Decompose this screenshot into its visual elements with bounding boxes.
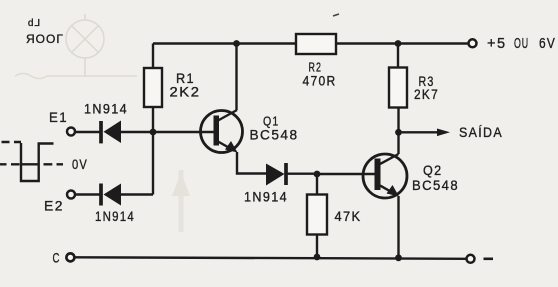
bleed-through text ghost 100R: [26, 18, 64, 46]
wire: SAIDA arrow: [399, 129, 451, 137]
wire: R3 top lead: [397, 44, 399, 68]
wire: D1 to node A: [118, 131, 153, 133]
svg-text:1N914: 1N914: [95, 208, 135, 224]
wire: E2 to D2: [75, 193, 101, 195]
svg-text:6V: 6V: [539, 35, 556, 52]
wire: Q2 emitter: [397, 196, 399, 258]
resistor R1: [144, 68, 162, 107]
wire: R1 top lead: [152, 44, 154, 69]
svg-text:47K: 47K: [335, 208, 362, 224]
resistor R3: [389, 68, 407, 108]
svg-text:E1: E1: [49, 109, 68, 125]
svg-text:SAÍDA: SAÍDA: [459, 124, 503, 140]
waveform input pulse: [0, 142, 63, 181]
junction dot: rail / Q1 collector: [233, 40, 240, 47]
bleed-through wire ghost: [15, 74, 137, 79]
svg-text:1N914: 1N914: [244, 188, 288, 204]
terminal E2: [67, 191, 75, 199]
diode D3 1N914: [266, 163, 286, 186]
wire: 47K bottom lead: [316, 235, 318, 258]
svg-text:470R: 470R: [303, 73, 337, 89]
wire: E1 to D1: [75, 131, 101, 133]
terminal +5V: [469, 39, 477, 47]
node A junction dot: [150, 129, 157, 136]
resistor 47K: [307, 195, 327, 235]
wire: E2 riser to node A: [152, 131, 154, 195]
svg-text:Lb: Lb: [27, 18, 40, 29]
svg-text:E2: E2: [44, 198, 64, 214]
wire: R1 bottom lead: [152, 107, 154, 132]
diode D1 1N914: [101, 121, 121, 144]
svg-text:Q2: Q2: [423, 162, 443, 178]
svg-text:C: C: [53, 250, 61, 266]
wire: top supply rail: [153, 42, 469, 44]
svg-text:ЯООΓ: ЯООΓ: [26, 32, 64, 46]
terminal minus: [467, 255, 475, 263]
junction dot: Q2 emitter / bottom rail: [395, 254, 402, 261]
transistor Q2 BC548: [363, 154, 407, 198]
transistor Q1 BC548: [201, 110, 243, 153]
terminal C: [66, 253, 74, 261]
svg-text:BC548: BC548: [250, 127, 299, 143]
svg-text:BC548: BC548: [412, 177, 459, 193]
svg-text:0V: 0V: [72, 156, 88, 172]
svg-text:2K7: 2K7: [414, 86, 439, 102]
label minus: [484, 257, 494, 260]
diode D2 1N914: [101, 184, 121, 206]
wire: R3 bottom to Q2 collector: [397, 108, 399, 155]
wire: node A to Q1 base: [153, 131, 215, 133]
wire: D2 to riser: [118, 193, 153, 195]
junction dot: rail / R3: [395, 40, 402, 47]
wire: Q1 collector: [235, 44, 237, 111]
terminal E1: [67, 128, 75, 136]
svg-text:1N914: 1N914: [84, 101, 128, 117]
bleed-through smudge ghost: [172, 170, 190, 232]
svg-text:2K2: 2K2: [170, 84, 201, 100]
wire: Q1 emitter down and right: [237, 152, 267, 174]
stray speck: [333, 14, 339, 16]
wire: D3 to node B: [285, 172, 317, 174]
resistor R2: [296, 34, 336, 54]
node B junction dot: [314, 171, 321, 178]
wire: node B to Q2 base: [317, 173, 375, 175]
bleed-through lamp ghost: [66, 14, 104, 77]
svg-text:+5: +5: [487, 35, 507, 52]
junction dot: SAIDA tap: [395, 129, 402, 136]
svg-text:OU: OU: [514, 35, 529, 52]
junction dot: 47K / bottom rail: [314, 254, 321, 261]
wire: bottom C rail: [75, 257, 467, 259]
wire: 47K top lead: [316, 174, 318, 195]
